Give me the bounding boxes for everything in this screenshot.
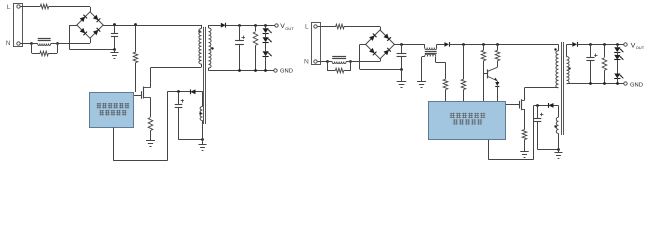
svg-text:OUT: OUT: [636, 45, 645, 50]
svg-text:L: L: [305, 24, 309, 31]
svg-text:L: L: [7, 4, 11, 11]
svg-text:OUT: OUT: [285, 26, 294, 31]
svg-text:GND: GND: [280, 69, 293, 75]
svg-text:N: N: [304, 59, 309, 66]
svg-text:GND: GND: [630, 82, 643, 88]
svg-text:N: N: [6, 40, 11, 47]
